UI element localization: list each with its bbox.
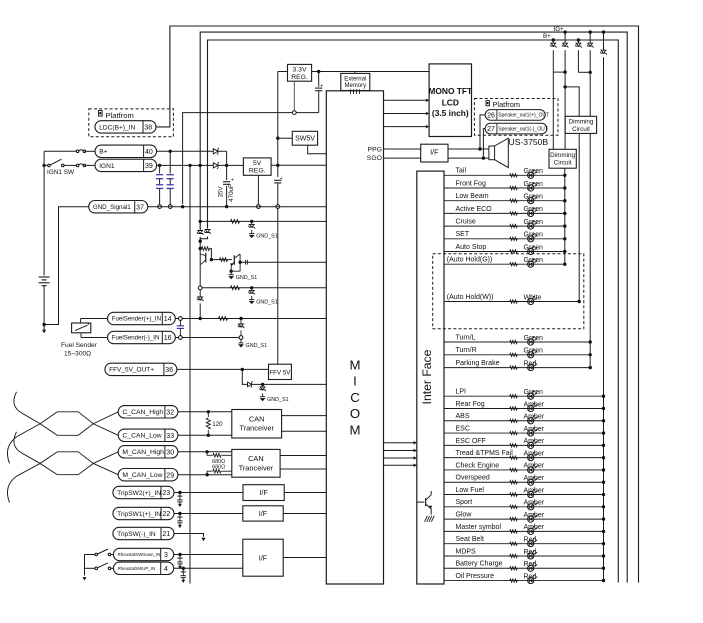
svg-text:Green: Green	[524, 389, 544, 396]
svg-text:Inter Face: Inter Face	[420, 349, 434, 404]
svg-text:I/F: I/F	[430, 149, 438, 156]
svg-text:Speaker_out1(-)_OUT: Speaker_out1(-)_OUT	[498, 126, 547, 132]
svg-text:16: 16	[164, 335, 172, 342]
svg-text:Tranceiver: Tranceiver	[239, 463, 274, 472]
svg-text:MONO TFT: MONO TFT	[428, 86, 473, 96]
svg-text:Red: Red	[524, 573, 537, 580]
svg-text:I: I	[353, 374, 357, 389]
svg-text:ESC: ESC	[456, 425, 470, 432]
svg-text:Green: Green	[524, 257, 544, 264]
svg-text:Amber: Amber	[524, 414, 545, 421]
svg-text:Amber: Amber	[524, 463, 545, 470]
svg-text:Tranceiver: Tranceiver	[239, 424, 274, 433]
svg-text:C_CAN_High: C_CAN_High	[122, 409, 163, 416]
svg-text:Amber: Amber	[524, 401, 545, 408]
svg-text:Circuit: Circuit	[554, 160, 572, 167]
svg-text:ABS: ABS	[456, 413, 470, 420]
svg-text:Red: Red	[524, 561, 537, 568]
svg-text:SGO: SGO	[367, 155, 382, 162]
svg-text:REG.: REG.	[291, 74, 308, 81]
svg-text:Battery Charge: Battery Charge	[456, 561, 503, 568]
svg-text:O: O	[350, 406, 360, 421]
svg-text:Auto Stop: Auto Stop	[456, 244, 487, 251]
svg-text:Amber: Amber	[524, 475, 545, 482]
svg-text:(Auto Hold(W)): (Auto Hold(W))	[447, 294, 494, 301]
svg-text:GND_S1: GND_S1	[256, 234, 278, 240]
svg-text:M: M	[350, 422, 361, 437]
svg-text:Amber: Amber	[524, 487, 545, 494]
svg-text:M_CAN_High: M_CAN_High	[122, 449, 164, 456]
svg-text:Seat Belt: Seat Belt	[456, 536, 484, 543]
svg-text:+: +	[280, 176, 283, 182]
svg-text:470uF: 470uF	[228, 184, 235, 202]
svg-text:REG.: REG.	[249, 168, 266, 175]
svg-text:Fuel Sender: Fuel Sender	[61, 342, 98, 349]
svg-text:GND_Signal1: GND_Signal1	[93, 204, 131, 211]
svg-text:Green: Green	[524, 244, 544, 251]
svg-text:3.3V: 3.3V	[293, 66, 307, 73]
svg-text:Platfrom: Platfrom	[106, 111, 134, 120]
svg-text:26: 26	[487, 112, 495, 119]
svg-text:Low Beam: Low Beam	[456, 193, 489, 200]
svg-text:Amber: Amber	[524, 438, 545, 445]
svg-text:Oil Pressure: Oil Pressure	[456, 573, 495, 580]
svg-text:LCD: LCD	[442, 98, 459, 108]
svg-text:Amber: Amber	[524, 500, 545, 507]
svg-text:CAN: CAN	[249, 414, 265, 423]
svg-text:Circuit: Circuit	[572, 126, 590, 133]
svg-text:37: 37	[136, 204, 144, 211]
svg-text:Glow: Glow	[456, 512, 473, 519]
svg-text:+: +	[231, 178, 234, 184]
svg-text:Green: Green	[524, 219, 544, 226]
svg-text:CAN: CAN	[248, 454, 264, 463]
svg-text:FFV 5V: FFV 5V	[269, 370, 291, 377]
svg-text:TripSW2(+)_IN: TripSW2(+)_IN	[117, 490, 161, 497]
svg-text:33: 33	[166, 433, 174, 440]
svg-text:30: 30	[166, 449, 174, 456]
svg-text:29: 29	[166, 472, 174, 479]
svg-text:40: 40	[145, 149, 153, 156]
svg-text:LPI: LPI	[456, 389, 467, 396]
svg-text:23: 23	[162, 490, 170, 497]
svg-text:Green: Green	[524, 335, 544, 342]
svg-text:680Ω: 680Ω	[212, 464, 225, 470]
svg-text:RheostatSWUP_IN: RheostatSWUP_IN	[118, 566, 156, 571]
svg-text:Front Fog: Front Fog	[456, 180, 486, 187]
svg-text:15~300Ω: 15~300Ω	[64, 351, 91, 358]
svg-text:Green: Green	[524, 206, 544, 213]
svg-text:I/F: I/F	[259, 553, 268, 562]
svg-text:Green: Green	[524, 348, 544, 355]
svg-text:3: 3	[164, 552, 168, 559]
svg-text:(3.5 inch): (3.5 inch)	[432, 108, 469, 118]
svg-text:GND_S1: GND_S1	[267, 397, 289, 403]
svg-text:120: 120	[212, 421, 223, 428]
svg-text:32: 32	[166, 409, 174, 416]
svg-text:Sport: Sport	[456, 499, 473, 506]
svg-text:Turn/R: Turn/R	[456, 347, 477, 354]
svg-text:Amber: Amber	[524, 450, 545, 457]
svg-text:36: 36	[165, 367, 173, 374]
svg-text:Amber: Amber	[524, 512, 545, 519]
svg-text:MDPS: MDPS	[456, 548, 477, 555]
svg-text:Memory: Memory	[344, 83, 366, 89]
svg-text:35V: 35V	[217, 186, 224, 198]
svg-text:Turn/L: Turn/L	[456, 334, 476, 341]
svg-text:PPG: PPG	[368, 146, 382, 153]
svg-text:FuelSender(+)_IN: FuelSender(+)_IN	[112, 316, 161, 323]
svg-text:Green: Green	[524, 181, 544, 188]
svg-text:Active ECO: Active ECO	[456, 206, 493, 213]
svg-text:Low Fuel: Low Fuel	[456, 487, 485, 494]
svg-text:21: 21	[162, 531, 170, 538]
svg-text:14: 14	[164, 316, 172, 323]
svg-text:FuelSender(-)_IN: FuelSender(-)_IN	[112, 335, 160, 342]
svg-text:Dimming: Dimming	[550, 152, 575, 159]
svg-text:M_CAN_Low: M_CAN_Low	[122, 472, 162, 479]
svg-text:M: M	[350, 358, 361, 373]
svg-text:38: 38	[144, 125, 152, 132]
svg-text:RheostatSWDown_IN: RheostatSWDown_IN	[118, 552, 161, 557]
svg-text:39: 39	[145, 163, 153, 170]
svg-text:Check Engine: Check Engine	[456, 462, 500, 469]
svg-text:4: 4	[164, 566, 168, 573]
svg-text:I/F: I/F	[259, 509, 268, 518]
svg-text:TripSW1(+)_IN: TripSW1(+)_IN	[117, 511, 161, 518]
svg-text:Red: Red	[524, 536, 537, 543]
svg-text:Amber: Amber	[524, 426, 545, 433]
svg-text:ESC OFF: ESC OFF	[456, 438, 486, 445]
svg-text:(Auto Hold(G)): (Auto Hold(G))	[447, 257, 493, 264]
svg-text:Tread &TPMS Fail: Tread &TPMS Fail	[456, 450, 514, 457]
svg-text:Green: Green	[524, 232, 544, 239]
svg-text:+: +	[320, 83, 323, 89]
svg-text:Green: Green	[524, 194, 544, 201]
svg-text:Cruise: Cruise	[456, 219, 476, 226]
svg-text:GND_S1: GND_S1	[236, 275, 258, 281]
svg-text:Tail: Tail	[456, 168, 467, 175]
svg-text:External: External	[344, 76, 366, 82]
svg-text:B+: B+	[543, 33, 551, 40]
svg-text:22: 22	[162, 511, 170, 518]
svg-text:FFV_5V_OUT+: FFV_5V_OUT+	[109, 367, 154, 374]
svg-text:Green: Green	[524, 168, 544, 175]
svg-text:Parking Brake: Parking Brake	[456, 360, 500, 367]
svg-text:IGN1 SW: IGN1 SW	[47, 169, 75, 176]
svg-text:Platfrom: Platfrom	[493, 100, 521, 109]
svg-text:I/F: I/F	[259, 488, 268, 497]
svg-text:Master symbol: Master symbol	[456, 524, 502, 531]
svg-text:27: 27	[487, 126, 495, 133]
svg-text:IG+: IG+	[554, 26, 565, 33]
svg-text:Red: Red	[524, 360, 537, 367]
svg-text:US-3750B: US-3750B	[509, 137, 549, 147]
svg-text:SET: SET	[456, 231, 470, 238]
svg-text:B+: B+	[99, 149, 107, 156]
svg-text:LDC(B+)_IN: LDC(B+)_IN	[99, 124, 135, 131]
svg-text:5V: 5V	[253, 160, 262, 167]
svg-text:C_CAN_Low: C_CAN_Low	[122, 433, 161, 440]
svg-text:Overspeed: Overspeed	[456, 475, 490, 482]
svg-text:SW5V: SW5V	[295, 136, 315, 143]
svg-text:GND_S1: GND_S1	[256, 300, 278, 306]
svg-text:Speaker_out1(+)_OUT: Speaker_out1(+)_OUT	[498, 113, 549, 119]
svg-text:Red: Red	[524, 549, 537, 556]
svg-text:C: C	[350, 390, 360, 405]
svg-text:White: White	[524, 294, 542, 301]
svg-text:Amber: Amber	[524, 524, 545, 531]
svg-text:GND_S1: GND_S1	[246, 343, 268, 349]
svg-text:IGN1: IGN1	[99, 163, 115, 170]
svg-text:Rear Fog: Rear Fog	[456, 401, 485, 408]
svg-text:Dimming: Dimming	[569, 119, 594, 126]
svg-text:TripSW(-)_IN: TripSW(-)_IN	[117, 531, 156, 538]
